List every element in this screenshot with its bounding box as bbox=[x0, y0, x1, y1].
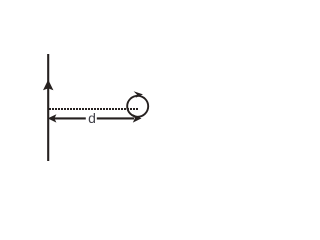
arrowhead: clockwise rotation arrow on loop bbox=[134, 91, 143, 98]
dimension arrow shaft left of label d bbox=[54, 117, 86, 119]
svg-text:d: d bbox=[88, 110, 96, 126]
wire: dotted construction line from wire to loop center bbox=[49, 108, 138, 110]
dimension arrow shaft right of label d bbox=[97, 117, 134, 119]
arrowhead: left end of dimension arrow bbox=[48, 114, 57, 122]
arrowhead: current direction arrow (up) on wire bbox=[43, 80, 53, 91]
arrowhead: right end of dimension arrow bbox=[133, 114, 142, 122]
wire: long straight vertical wire bbox=[47, 54, 49, 161]
loop: circular current loop bbox=[127, 96, 148, 117]
